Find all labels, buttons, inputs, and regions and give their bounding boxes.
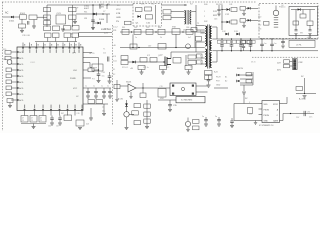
wire cape 0 stem bbox=[261, 39, 263, 44]
pin label bottom 6 bbox=[67, 105, 68, 109]
wire cy stem b bbox=[109, 77, 111, 80]
svg-text:12V: 12V bbox=[277, 63, 281, 65]
wire u101 top pin 2 bbox=[29, 43, 31, 48]
ground G7 bbox=[303, 96, 307, 98]
pin mark left 6 bbox=[17, 81, 19, 83]
wire emi vert left bbox=[46, 5, 48, 27]
capacitor CY105 bbox=[107, 57, 109, 62]
svg-text:D5: D5 bbox=[117, 5, 119, 7]
svg-text:C63: C63 bbox=[146, 27, 149, 29]
wire linkA2 bbox=[175, 34, 177, 47]
svg-text:De: De bbox=[249, 8, 251, 10]
wire u101 r5 bbox=[83, 77, 91, 79]
ic U105 box bbox=[176, 97, 205, 103]
wire cross upper bbox=[79, 32, 113, 34]
label box C123b bbox=[252, 40, 256, 43]
junction JB1a bbox=[231, 38, 232, 39]
wire fb left vert bbox=[116, 80, 118, 99]
capacitor CY104 bbox=[108, 76, 112, 77]
resistor R102 bbox=[19, 24, 26, 28]
wire cap 3 stem bbox=[250, 39, 252, 45]
ground G37 bbox=[308, 34, 311, 36]
wire bc3 stem bbox=[231, 118, 233, 121]
resistor R114 bbox=[163, 16, 171, 20]
diode D105 bbox=[137, 15, 140, 18]
junction JB0d bbox=[261, 50, 262, 51]
wire g18 stem bbox=[9, 103, 11, 106]
wire u101 top pin 10 bbox=[78, 43, 80, 48]
wire right h bbox=[296, 93, 316, 95]
pin mark top 9 bbox=[73, 47, 75, 49]
wire vcc stem 0 bbox=[87, 88, 89, 91]
svg-text:4007: 4007 bbox=[84, 8, 90, 10]
resistor R148 bbox=[76, 120, 84, 126]
svg-text:25: 25 bbox=[22, 120, 24, 122]
wire u101 r3 h bbox=[90, 67, 92, 69]
resistor R152 bbox=[132, 111, 139, 115]
resistor R151 bbox=[134, 104, 141, 108]
svg-text:C43: C43 bbox=[214, 19, 217, 21]
wire u101 top pin 6 bbox=[55, 43, 57, 48]
wire vcc stem2 2 bbox=[103, 93, 105, 96]
capacitor CY101 bbox=[69, 15, 77, 19]
svg-text:D6: D6 bbox=[183, 30, 185, 32]
svg-text:R80: R80 bbox=[258, 17, 261, 19]
junction J8 bbox=[290, 113, 291, 114]
wire u101 top pin 4 bbox=[42, 43, 44, 48]
capacitor C120 bbox=[220, 45, 224, 46]
resistor R143 bbox=[6, 80, 12, 84]
resistor R120 bbox=[188, 61, 196, 65]
pin mark bottom 5 bbox=[59, 109, 61, 111]
wire tt stem2 bbox=[218, 11, 220, 14]
svg-text:R64: R64 bbox=[158, 27, 161, 29]
wire vcc stem2 0 bbox=[87, 93, 89, 96]
svg-text:1u: 1u bbox=[215, 116, 217, 118]
wire t1 sec tap bbox=[212, 38, 214, 40]
resistor R112 bbox=[146, 15, 153, 19]
wire cape 1 stem bbox=[271, 39, 273, 44]
wire vert C107 bbox=[92, 5, 94, 30]
pin mark left 9 bbox=[17, 99, 19, 101]
pin mark left 5 bbox=[17, 75, 19, 77]
capacitor C166 bbox=[186, 29, 193, 34]
capacitor C121 bbox=[230, 45, 234, 46]
inductor L102 bbox=[69, 8, 77, 12]
svg-text:C48: C48 bbox=[102, 72, 105, 74]
wire emi vert right bbox=[72, 5, 74, 27]
wire linkA1 bbox=[132, 34, 134, 47]
capacitor C153 bbox=[96, 100, 103, 104]
ic U101 outline bbox=[17, 47, 83, 111]
junction J13 bbox=[221, 9, 222, 10]
wire opto out2 bbox=[196, 91, 208, 93]
wire q103 stem up bbox=[275, 6, 277, 11]
label box C121b bbox=[233, 40, 237, 43]
pin number top 8 bbox=[71, 44, 72, 46]
wire u103 ref v bbox=[142, 83, 144, 93]
transformer T102 bbox=[187, 10, 189, 25]
capacitor C123 bbox=[249, 45, 253, 46]
wire AC live bbox=[3, 16, 20, 18]
svg-text:C41: C41 bbox=[229, 4, 232, 6]
pin label bottom 5 bbox=[59, 105, 60, 109]
wire sec bus2 bbox=[215, 50, 319, 52]
wire ic2 vert bbox=[233, 104, 235, 121]
junction J2 bbox=[102, 13, 103, 14]
wire u101 left pin 3 bbox=[11, 63, 17, 65]
svg-text:R_0: R_0 bbox=[151, 4, 154, 6]
wire cap stub a bbox=[47, 38, 49, 42]
standby block outline l bbox=[132, 4, 134, 27]
svg-text:A2: A2 bbox=[225, 80, 227, 83]
capacitor C177 bbox=[242, 46, 245, 47]
junction JB1c bbox=[231, 50, 232, 51]
svg-text:STB: STB bbox=[116, 13, 121, 15]
wire u101 left pin 8 bbox=[11, 93, 17, 95]
wire cn feed1 bbox=[290, 61, 293, 63]
transistor Q105 bbox=[185, 121, 190, 126]
diode D110 bbox=[226, 8, 229, 11]
capacitor C144 bbox=[30, 116, 37, 123]
wire u101 r3 v bbox=[89, 63, 91, 68]
pin mark bottom 3 bbox=[42, 109, 44, 111]
wire bc0 stem bbox=[205, 117, 207, 120]
wire u104 stby up bbox=[286, 97, 288, 104]
pin mark top 3 bbox=[36, 47, 38, 49]
wire t2 in1 bbox=[171, 11, 184, 13]
wire ovp stub1 bbox=[295, 36, 297, 40]
wire rowA rail bbox=[120, 31, 205, 33]
wire u101 left pin 2 bbox=[11, 57, 17, 59]
wire bc3 stem2 bbox=[231, 122, 233, 125]
pin mark left 4 bbox=[17, 69, 19, 71]
wire t1 stub l1 bbox=[201, 32, 205, 34]
resistor R161 bbox=[122, 29, 129, 34]
resistor R154 bbox=[144, 104, 151, 108]
resistor R126 bbox=[293, 21, 299, 25]
standby block outline r bbox=[161, 4, 163, 27]
capacitor C190 bbox=[304, 111, 306, 116]
svg-text:VCC: VCC bbox=[73, 88, 78, 90]
capacitor C138 bbox=[230, 121, 234, 122]
ground G1 bbox=[20, 31, 24, 33]
wire u101 r1 bbox=[83, 52, 92, 54]
wire u101 left pin 1 bbox=[11, 51, 17, 53]
diode D111 bbox=[226, 21, 229, 24]
wire brace bbox=[21, 123, 46, 125]
capacitor C134 bbox=[248, 108, 253, 114]
resistor R156 bbox=[144, 119, 151, 123]
diode D115 bbox=[237, 74, 240, 77]
capacitor C108 bbox=[91, 20, 95, 21]
pin label bottom 2 bbox=[34, 105, 35, 109]
wire vert aux bbox=[106, 14, 108, 23]
wire u101 bottom pin 7 bbox=[74, 111, 76, 116]
ground G2 bbox=[32, 26, 36, 28]
pin mark top 5 bbox=[49, 47, 51, 49]
varistor RV101 bbox=[29, 15, 37, 20]
mosfet Q102 bbox=[163, 57, 171, 67]
border left dashed bbox=[2, 2, 4, 131]
pin mark left 1 bbox=[17, 51, 19, 53]
clamp R172 bbox=[197, 54, 203, 58]
svg-text:Dim: Dim bbox=[309, 117, 313, 119]
pin label top 10 bbox=[79, 49, 80, 53]
wire sgnd vert2 bbox=[208, 81, 210, 85]
resistor R146 bbox=[7, 99, 13, 103]
pin mark left 7 bbox=[17, 87, 19, 89]
ground G21 bbox=[58, 123, 62, 125]
resistor R116 bbox=[121, 56, 128, 60]
wire t2 in2 bbox=[171, 17, 184, 19]
wire sgnd vert bbox=[208, 75, 210, 79]
wire t1 link1 bbox=[196, 41, 205, 43]
resistor R110 bbox=[125, 21, 132, 25]
wire ovp v2 bbox=[302, 10, 304, 15]
wire cross corner bbox=[78, 33, 80, 37]
diode D116 bbox=[237, 80, 240, 83]
pin number top 10 bbox=[80, 44, 81, 46]
wire bc1 stem bbox=[218, 117, 220, 120]
ovp block outline bbox=[289, 7, 318, 36]
wire g19 stem bbox=[33, 124, 35, 127]
pin number top 6 bbox=[58, 44, 59, 46]
junction J1 bbox=[92, 13, 93, 14]
wire cap stub c bbox=[66, 38, 68, 42]
wire cape 1 stem2 bbox=[271, 46, 273, 51]
wire d119 gs bbox=[243, 10, 245, 13]
pin number top 7 bbox=[64, 44, 65, 46]
resistor R123 bbox=[264, 22, 270, 26]
ground G12 bbox=[187, 72, 191, 74]
svg-text:IC 7805 REG: IC 7805 REG bbox=[181, 100, 193, 102]
resistor R117 bbox=[121, 61, 128, 65]
capacitor C135 bbox=[168, 105, 172, 106]
protection block outline dashed bbox=[259, 4, 318, 39]
optocoupler pins bbox=[172, 85, 194, 95]
diode D112 bbox=[225, 33, 228, 36]
svg-text:R61: R61 bbox=[122, 27, 125, 29]
wire cy stem bbox=[74, 20, 76, 22]
standby block outline b bbox=[133, 25, 162, 27]
resistor R174 bbox=[241, 41, 246, 44]
clamp R173 bbox=[197, 60, 203, 64]
resistor R113 bbox=[163, 10, 171, 14]
wire t1 pri top bbox=[196, 25, 205, 27]
wire t1 pri bot bbox=[204, 47, 205, 49]
comparator block bbox=[92, 64, 103, 71]
svg-text:R88: R88 bbox=[249, 114, 252, 116]
ground G4 bbox=[73, 22, 77, 24]
resistor R133 bbox=[246, 80, 252, 83]
ground G39 bbox=[115, 100, 118, 102]
junction J9 bbox=[99, 4, 100, 5]
svg-text:BD1: BD1 bbox=[141, 4, 145, 6]
standby block outline bbox=[133, 3, 162, 5]
wire ovp v1 bbox=[295, 10, 297, 29]
thermistor TH101 bbox=[274, 18, 278, 28]
snubber R165 bbox=[172, 29, 180, 35]
resistor R138 bbox=[193, 126, 200, 130]
wire cap 0 stem2 bbox=[221, 46, 223, 51]
pin mark bottom 7 bbox=[74, 109, 76, 111]
wire t1 stub l3 bbox=[201, 63, 205, 65]
resistor R150 bbox=[88, 68, 94, 72]
junction J3 bbox=[92, 4, 93, 5]
ground G34 bbox=[242, 26, 246, 28]
junction J12 bbox=[142, 87, 143, 88]
svg-text:2n2: 2n2 bbox=[103, 53, 106, 55]
svg-text:GND: GND bbox=[216, 85, 221, 87]
capacitor C122 bbox=[239, 45, 243, 46]
wire g38 stem bbox=[255, 121, 257, 123]
wire c135 stem bbox=[169, 106, 171, 109]
capacitor C174 bbox=[217, 9, 220, 10]
svg-text:U101: U101 bbox=[30, 62, 36, 64]
diode D101 bbox=[11, 16, 14, 18]
wire g11 stem bbox=[162, 70, 164, 72]
wire fb3 bbox=[240, 82, 253, 84]
resistor R169 bbox=[150, 58, 157, 63]
ic U104 bbox=[262, 101, 280, 123]
wire cross lower bbox=[79, 35, 113, 37]
svg-text:1u: 1u bbox=[101, 86, 103, 88]
wire reg vert bbox=[126, 100, 128, 112]
svg-text:D102: D102 bbox=[84, 6, 90, 8]
svg-text:ACD: ACD bbox=[19, 57, 24, 60]
svg-text:ACD: ACD bbox=[19, 87, 24, 90]
wire src vert bbox=[185, 55, 187, 66]
pin number top 5 bbox=[51, 44, 52, 46]
pin mark bottom 6 bbox=[67, 109, 69, 111]
junction JB0c bbox=[221, 50, 222, 51]
capacitor C147 bbox=[58, 118, 62, 119]
svg-text:1: 1 bbox=[200, 31, 201, 33]
wire ldo vert bbox=[98, 58, 100, 74]
junction J11 bbox=[184, 4, 185, 5]
wire tt stem bbox=[218, 5, 220, 9]
diode D103 bbox=[93, 13, 96, 16]
ground G8 bbox=[207, 85, 211, 87]
wire bl stem3 bbox=[59, 116, 61, 118]
svg-text:3: 3 bbox=[200, 56, 201, 58]
pin number top 3 bbox=[38, 44, 39, 46]
wire vcc stem2 1 bbox=[95, 93, 97, 96]
ground G33 bbox=[242, 14, 246, 16]
label box C120b bbox=[223, 40, 227, 43]
wire t1 link2 bbox=[196, 51, 205, 53]
wire stby vert bbox=[155, 5, 157, 24]
pin number top 9 bbox=[76, 44, 77, 46]
wire stub down bbox=[21, 19, 23, 24]
junction J14 bbox=[221, 21, 222, 22]
svg-text:4: 4 bbox=[200, 62, 201, 64]
capacitor C149 bbox=[86, 91, 90, 92]
junction JB2c bbox=[240, 50, 241, 51]
resistor R145 bbox=[6, 92, 12, 96]
ground G10 bbox=[140, 72, 144, 74]
svg-text:D_12: D_12 bbox=[113, 27, 118, 29]
pin label top 9 bbox=[74, 49, 75, 53]
wire u101 r3 bbox=[83, 62, 90, 64]
pin label top 1 bbox=[23, 49, 24, 53]
svg-text:P_5V: P_5V bbox=[118, 99, 124, 101]
wire t1 sec3 bbox=[212, 61, 217, 63]
ground G32 bbox=[145, 127, 149, 129]
svg-text:Y1: Y1 bbox=[103, 49, 105, 51]
wire cn feed2 bbox=[290, 65, 293, 67]
resistor R162 bbox=[134, 29, 141, 34]
pin mark left 8 bbox=[17, 93, 19, 95]
svg-text:1u: 1u bbox=[107, 86, 109, 88]
ground G30 bbox=[108, 81, 112, 83]
wire u101 vcc bus bbox=[83, 87, 111, 89]
svg-text:S-G: S-G bbox=[214, 72, 218, 74]
wire vcc stem 3 bbox=[109, 88, 111, 91]
pin label top 6 bbox=[56, 49, 57, 53]
junction JB1b bbox=[271, 38, 272, 39]
wire cap 1 stem2 bbox=[231, 46, 233, 51]
wire u101 lx bbox=[83, 103, 108, 105]
wire above ic h bbox=[35, 41, 77, 43]
capacitor CX101 bbox=[56, 15, 66, 24]
wire bl stem4 bbox=[59, 119, 61, 122]
wire aux2h bbox=[222, 21, 226, 23]
svg-text:GND: GND bbox=[264, 121, 269, 123]
pin label top 4 bbox=[43, 49, 44, 53]
svg-text:A_GND: A_GND bbox=[299, 98, 306, 101]
junction J4 bbox=[106, 4, 107, 5]
wire r150 h bbox=[94, 69, 99, 71]
wire net n1 bbox=[214, 87, 228, 89]
svg-text:1u: 1u bbox=[202, 116, 204, 118]
wire u104 stby bbox=[283, 103, 287, 105]
capacitor C112 bbox=[231, 8, 237, 12]
wire u101 r2 bbox=[83, 57, 99, 59]
ground G29 bbox=[102, 114, 106, 116]
capacitor C151 bbox=[102, 91, 106, 92]
wire cap stub d bbox=[74, 38, 76, 42]
ground G40 bbox=[129, 97, 132, 99]
svg-text:10u: 10u bbox=[102, 76, 105, 78]
capacitor C126 bbox=[260, 44, 264, 45]
capacitor C152 bbox=[108, 91, 112, 92]
diode D104 bbox=[97, 22, 100, 25]
ground G36 bbox=[217, 14, 220, 16]
pin mark bottom 1 bbox=[24, 109, 26, 111]
wire out bottom bbox=[283, 113, 314, 115]
wire reg h1 bbox=[129, 113, 134, 115]
capacitor C145 bbox=[39, 116, 46, 123]
svg-text:C7: C7 bbox=[103, 11, 105, 13]
wire lcd h bbox=[158, 99, 176, 101]
wire g23 stem bbox=[98, 75, 100, 80]
svg-text:C62: C62 bbox=[134, 27, 137, 29]
junction JA3 bbox=[182, 31, 183, 32]
capacitor C109 bbox=[145, 7, 152, 11]
resistor R104 bbox=[44, 21, 51, 25]
wire u101 left pin 4 bbox=[11, 69, 17, 71]
svg-text:R47: R47 bbox=[61, 113, 64, 115]
wire u101 r4 bbox=[83, 69, 88, 71]
wire right v bbox=[304, 78, 306, 94]
label box C120a bbox=[217, 40, 221, 43]
transistor Q107 bbox=[7, 60, 12, 65]
pin mark left 2 bbox=[17, 57, 19, 59]
wire drop1 bbox=[99, 5, 101, 9]
capacitor C148 bbox=[97, 74, 101, 75]
